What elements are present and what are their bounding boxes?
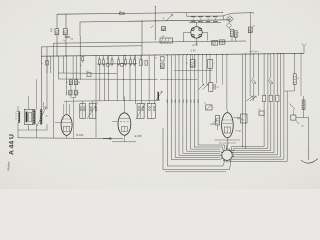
- lamp La diamond: [227, 16, 234, 23]
- wire x57 lower: [56, 35, 58, 56]
- coil L2: [33, 110, 35, 125]
- label E408: [135, 134, 142, 138]
- svg-text:50: 50: [102, 58, 104, 60]
- vert labels: [167, 99, 200, 103]
- core box: [24, 109, 33, 124]
- transformer primary wire: [187, 13, 224, 20]
- coil L3: [37, 107, 47, 126]
- connector wires left: [171, 145, 224, 160]
- resistor R50: [302, 96, 305, 118]
- wire dash link: [284, 90, 295, 92]
- svg-text:0,1: 0,1: [297, 78, 299, 80]
- svg-text:330: 330: [162, 36, 165, 38]
- bus junction dots: [57, 53, 302, 57]
- svg-text:2: 2: [214, 63, 215, 65]
- rectifier tube AZ11: [184, 23, 208, 46]
- capacitor C30: [204, 103, 215, 110]
- small res row: [262, 95, 279, 101]
- svg-text:Philips: Philips: [6, 161, 10, 170]
- component Ta: [41, 61, 48, 66]
- bus main horizontal: [41, 53, 304, 56]
- svg-text:40: 40: [50, 31, 52, 33]
- IF can T1a: [80, 104, 86, 119]
- svg-text:D2: D2: [217, 87, 219, 89]
- wire lamp feed: [229, 20, 231, 23]
- el-cap C40: [251, 78, 256, 84]
- label A183: [77, 133, 84, 137]
- variable caps: [246, 96, 256, 101]
- wire mains top: [57, 12, 223, 14]
- title Philips: [6, 161, 10, 170]
- box small left: [162, 27, 166, 31]
- wire v3 grid: [210, 124, 240, 140]
- resistor R12: [230, 29, 233, 36]
- el-cap C41: [268, 78, 273, 84]
- resistor R32: [208, 60, 215, 69]
- IF can T2b: [147, 103, 155, 118]
- wire x53 drop: [52, 43, 54, 138]
- bus end stub: [302, 43, 306, 53]
- resistor R2 block: [63, 29, 73, 41]
- svg-text:50: 50: [130, 58, 132, 60]
- title A44U: [8, 134, 15, 155]
- tube V1 AF7: [61, 101, 72, 139]
- label bus: [250, 51, 260, 53]
- wire to arrow: [304, 118, 309, 148]
- el-cap right of V3: [233, 117, 243, 120]
- svg-text:nach S gn w: nach S gn w: [250, 51, 260, 53]
- svg-text:A 44 U: A 44 U: [8, 134, 15, 155]
- label Gr: [253, 24, 256, 27]
- svg-text:E 443: E 443: [235, 131, 241, 133]
- svg-text:5g: 5g: [78, 82, 80, 84]
- wire x80 lower: [79, 36, 81, 80]
- capacitor C1: [63, 36, 70, 42]
- left verticals: [47, 56, 76, 96]
- component Zm: [86, 71, 91, 77]
- wire rail y70.7: [174, 67, 213, 71]
- resistor R22: [66, 90, 72, 95]
- capacitor C20: [80, 56, 84, 67]
- resistor R23: [74, 90, 79, 95]
- resistor R10 diagonal: [163, 15, 173, 22]
- svg-text:40: 40: [163, 18, 165, 20]
- wire drop x80: [79, 22, 81, 36]
- connector wires right: [229, 150, 287, 161]
- svg-text:a4: a4: [204, 103, 206, 105]
- IF can T1b: [87, 102, 98, 119]
- wire mains second: [80, 20, 230, 22]
- svg-text:2µ: 2µ: [63, 40, 65, 42]
- transformer windings: [191, 16, 217, 22]
- output cluster: [290, 104, 304, 128]
- resistor R20: [66, 80, 73, 85]
- svg-text:10: 10: [66, 93, 68, 95]
- bridge block: [219, 40, 225, 44]
- wire if links: [64, 100, 160, 104]
- resistor R30: [212, 116, 219, 126]
- pot P1: [156, 91, 163, 101]
- svg-text:C 42: C 42: [191, 49, 197, 52]
- resistor R40: [293, 54, 299, 91]
- fuse Si on mains wire: [119, 11, 124, 15]
- svg-text:300: 300: [241, 120, 244, 122]
- svg-text:10k: 10k: [301, 125, 304, 127]
- svg-text:12: 12: [155, 58, 157, 60]
- svg-text:50: 50: [107, 58, 109, 60]
- resistor R11 ballast: [151, 26, 173, 44]
- wire rail y79.5: [160, 79, 198, 81]
- svg-text:10: 10: [66, 82, 68, 84]
- svg-text:1: 1: [238, 36, 239, 38]
- box R45: [258, 109, 264, 115]
- resistor R31 hatched: [186, 60, 195, 68]
- wire v3 anode: [226, 54, 228, 110]
- wire under tube2: [55, 122, 136, 142]
- svg-text:25: 25: [258, 109, 260, 111]
- tube V2 AF7: [118, 97, 131, 139]
- wire psu vertical x155: [155, 6, 156, 40]
- wire psu vertical x142: [141, 21, 144, 56]
- coil wires bottom: [18, 124, 47, 138]
- svg-text:E 408: E 408: [135, 134, 142, 138]
- resistor R1 block: [55, 29, 59, 35]
- label NO 40: [50, 29, 53, 33]
- svg-text:AZ 11: AZ 11: [192, 44, 198, 47]
- connector wires bottom: [163, 161, 231, 172]
- right verticals: [243, 54, 288, 162]
- capacitor row: [99, 55, 148, 66]
- tuner verticals: [96, 55, 154, 137]
- connector plug circle: [220, 148, 235, 163]
- fuse Gr: [248, 12, 252, 53]
- wire x41 drop: [40, 47, 42, 109]
- connector label: [219, 141, 236, 144]
- wire drop x66: [65, 14, 67, 28]
- box 300: [241, 114, 248, 123]
- coil wires top: [18, 47, 47, 110]
- wire sub rail: [97, 63, 137, 65]
- wire drop x57: [56, 14, 58, 28]
- wire bottom long: [18, 137, 124, 140]
- arrow to speaker: [301, 147, 318, 163]
- box bus-left: [155, 57, 164, 69]
- wire rail y79: [58, 79, 157, 80]
- wire switch to lamp: [232, 13, 254, 15]
- svg-text:4: 4: [238, 32, 239, 34]
- tube V3 output: [222, 110, 234, 150]
- resistor R21: [75, 80, 81, 85]
- svg-text:50: 50: [125, 58, 127, 60]
- trim caps C33: [199, 84, 209, 90]
- svg-text:50: 50: [111, 58, 113, 60]
- svg-text:50: 50: [134, 58, 136, 60]
- coil L1 antenna: [15, 109, 20, 125]
- psu mid verticals: [193, 54, 223, 85]
- wire x301: [300, 54, 302, 97]
- svg-text:50: 50: [118, 58, 120, 60]
- label C42: [191, 49, 197, 52]
- svg-text:4a: 4a: [80, 65, 82, 67]
- svg-text:(von unten gesehen): (von unten gesehen): [219, 141, 236, 144]
- wire heater: [53, 41, 246, 43]
- wire grid line: [41, 46, 142, 47]
- svg-text:50: 50: [98, 58, 100, 60]
- wire lamp-resistor: [229, 28, 236, 41]
- IF can T2a: [136, 103, 146, 120]
- switch S1 lever: [222, 12, 232, 16]
- wire rail y73: [58, 73, 117, 74]
- lamp Lb diamond: [226, 23, 231, 28]
- svg-text:B 183: B 183: [77, 133, 84, 137]
- label V3: [235, 131, 241, 133]
- svg-text:Ta: Ta: [41, 63, 43, 65]
- transformer secondary wire: [189, 21, 221, 23]
- svg-text:S: S: [138, 58, 139, 60]
- capacitor C34 box: [209, 83, 213, 92]
- connector top wires: [227, 145, 268, 152]
- tuner labels: [98, 58, 135, 60]
- label AZ11: [192, 44, 198, 47]
- wire x66 lower: [65, 35, 67, 56]
- svg-text:Gr: Gr: [253, 24, 256, 27]
- resistor R13: [234, 31, 238, 38]
- signal arrow: [103, 137, 112, 140]
- wire r2x links: [71, 85, 76, 138]
- cap C35: [214, 84, 219, 90]
- bus drop verticals: [163, 55, 198, 170]
- choke L10: [211, 41, 217, 46]
